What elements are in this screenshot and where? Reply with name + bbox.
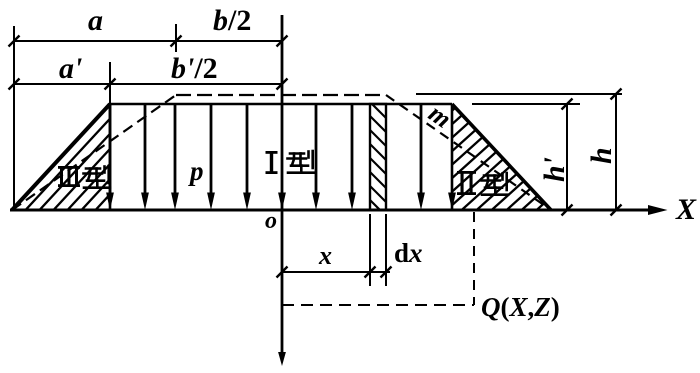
tick at 282,84 [277, 79, 288, 90]
tick at 386,272 [381, 267, 392, 278]
tick at 282,41 [277, 36, 288, 47]
triangle II left vertical edge [451, 104, 454, 210]
dimension line a + b/2 [14, 40, 282, 42]
svg-text:Q(X,Z): Q(X,Z) [481, 292, 560, 322]
hatch triangle II [335, 90, 700, 216]
tick at 14,84 [9, 79, 20, 90]
dashed profile left slope [12, 95, 176, 210]
label I (type I) [266, 151, 278, 174]
label 型 after II [482, 173, 509, 195]
tick at 282,272 [277, 267, 288, 278]
extension stub at x=176 [175, 24, 177, 52]
baseline / X axis [10, 209, 650, 212]
label II (type II) [457, 171, 476, 195]
label 型 after III [84, 166, 111, 188]
vertical center axis [281, 15, 284, 353]
load arrows [110, 104, 421, 193]
h' extension line [472, 103, 580, 105]
dimension line a' + b'/2 [14, 83, 282, 85]
svg-text:a': a' [59, 52, 82, 85]
svg-text:dx: dx [394, 238, 423, 268]
X axis arrowhead [648, 205, 668, 215]
x dimension extension stub left [369, 214, 371, 286]
triangle III right vertical edge [109, 104, 112, 210]
h dimension line [615, 94, 617, 210]
dashed horizontal to Q [282, 304, 474, 306]
svg-text:h': h' [538, 157, 571, 182]
hatch triangle III [20, 97, 214, 216]
tick at 110,84 [105, 79, 116, 90]
h' dimension line [566, 104, 568, 210]
x dimension line [282, 271, 390, 273]
tick at 14,41 [9, 36, 20, 47]
tick at h bottom [611, 205, 622, 216]
dashed profile top edge [176, 94, 386, 96]
dashed vertical to Q [473, 212, 475, 305]
tick at 176,41 [171, 36, 182, 47]
tick at h top [611, 89, 622, 100]
dx strip hatch [368, 100, 390, 220]
solid trapezoid left hypotenuse [12, 104, 110, 210]
dx strip [370, 104, 386, 210]
tick at 370,272 [365, 267, 376, 278]
svg-text:h: h [585, 147, 618, 164]
tick at h' bottom [562, 205, 573, 216]
extension stub at x=110 [109, 62, 111, 104]
svg-text:b'/2: b'/2 [171, 52, 218, 85]
svg-text:b/2: b/2 [213, 4, 251, 37]
label 型 after I [288, 151, 315, 173]
svg-text:x: x [318, 241, 332, 270]
svg-text:X: X [675, 193, 697, 226]
dashed profile right slope (m line) [386, 95, 551, 210]
solid trapezoid right hypotenuse [452, 104, 551, 210]
svg-text:o: o [265, 208, 277, 234]
tick at h' top [562, 99, 573, 110]
h extension line [416, 93, 622, 95]
x dimension extension stub right [385, 214, 387, 286]
svg-text:p: p [188, 156, 204, 186]
svg-text:a: a [88, 4, 103, 37]
label III (type III) [58, 166, 80, 187]
solid trapezoid top edge [110, 103, 452, 106]
center axis down arrowhead [278, 352, 286, 366]
extension line left [13, 26, 15, 210]
